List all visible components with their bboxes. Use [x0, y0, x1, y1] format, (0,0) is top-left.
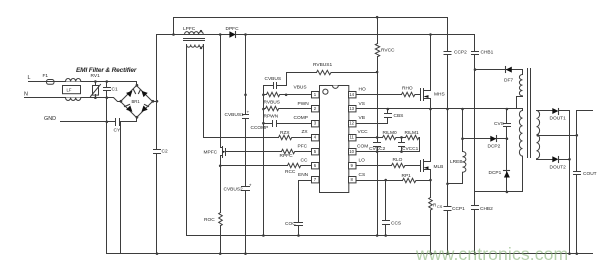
resistor RP1: [403, 178, 431, 182]
svg-text:RVCC: RVCC: [381, 48, 395, 54]
svg-text:+: +: [249, 184, 252, 189]
svg-text:BR1: BR1: [132, 99, 141, 104]
svg-text:CVBUS2: CVBUS2: [224, 187, 244, 193]
resistor RPWN: [264, 106, 312, 110]
inductor LF bottom winding: [66, 98, 82, 101]
wire LO line: [357, 165, 392, 167]
svg-text:CY: CY: [114, 128, 121, 134]
resistor ROC: [219, 166, 223, 254]
resistor RCS: [429, 181, 433, 254]
wire x446.5 down to CCP1: [447, 109, 449, 254]
wire CY branch down to bottom rail: [120, 122, 122, 254]
IC pin boxes left: [312, 92, 320, 183]
svg-text:13: 13: [349, 106, 354, 111]
svg-text:RPFC: RPFC: [280, 153, 294, 159]
bridge diode top-right: [141, 91, 147, 97]
svg-text:VS: VS: [359, 101, 365, 107]
wire VCC line with RILM0 RILM1: [357, 137, 383, 139]
junction dot DCP1 bottom: [506, 191, 509, 194]
svg-text:VCC: VCC: [358, 129, 369, 135]
transformer TX primary top winding: [517, 75, 523, 109]
wire LPFC aux right down to ZX: [204, 45, 279, 138]
svg-text:VBUS: VBUS: [294, 84, 307, 90]
wire main rail y34: [157, 34, 475, 36]
capacitor C1: [104, 82, 111, 98]
svg-text:RPWN: RPWN: [264, 114, 279, 120]
resistor RPFC: [282, 149, 312, 153]
svg-text:DCP2: DCP2: [488, 143, 501, 149]
capacitor COUT: [574, 172, 581, 254]
wire top rail y16.7: [174, 17, 448, 19]
capacitor CCOMP with COMP line: [264, 121, 312, 127]
svg-text:11: 11: [349, 135, 354, 140]
inductor LPFC top winding: [185, 32, 204, 35]
junction dot rail x173: [172, 33, 175, 36]
svg-text:LO: LO: [359, 158, 366, 164]
wire x462 down: [462, 109, 464, 152]
resistor RCC: [288, 163, 312, 167]
wire ENN pin7: [299, 181, 312, 223]
resistor RVBUS1: [317, 70, 331, 74]
wire bottom DC- rail: [107, 253, 593, 255]
junction dots C1: [106, 80, 109, 99]
inductor LPFC aux winding: [187, 45, 204, 48]
junction dot COUT rail: [576, 252, 579, 255]
resistor RILM1: [402, 135, 420, 151]
junction dot VS x446.5: [446, 108, 449, 111]
svg-text:CVS: CVS: [494, 121, 504, 127]
wire pin1 line: [287, 94, 312, 96]
junction dots CVS chain: [506, 108, 509, 140]
resistor RLO: [392, 163, 421, 167]
diode DOUT2: [552, 156, 558, 162]
wire secondary bottom to DOUT2: [537, 159, 553, 161]
svg-text:COUT: COUT: [583, 171, 597, 177]
capacitor CY: [116, 118, 137, 126]
diode DCP2: [463, 138, 507, 140]
wire center tap: [538, 135, 577, 137]
junction dot DCP2 branch: [461, 137, 464, 140]
bridge diode bottom-left: [126, 106, 132, 112]
junction dot VS x462: [461, 108, 464, 111]
diode DOUT1: [552, 108, 558, 114]
svg-text:CVCC1: CVCC1: [402, 146, 419, 152]
wire RVCC vertical: [377, 18, 379, 44]
junction dot MPFC source: [219, 165, 222, 168]
svg-text:10: 10: [349, 149, 354, 154]
junction dot ROC bottom rail: [219, 252, 222, 255]
wire DOUT cathode bus: [569, 111, 571, 254]
resistor RHO: [402, 92, 421, 96]
svg-text:N: N: [24, 92, 28, 98]
diode DCP1: [506, 139, 508, 192]
junction dots B1: [244, 94, 247, 256]
capacitor CHB1: [472, 52, 479, 55]
resistor RZX: [279, 135, 312, 139]
capacitor CVCC2: [374, 138, 381, 152]
wire bridge right to DC bus: [153, 101, 157, 103]
junction dots CCP1 line: [446, 183, 449, 256]
svg-text:14: 14: [349, 92, 354, 97]
svg-text:CCP1: CCP1: [452, 206, 465, 212]
svg-text:GND: GND: [44, 116, 56, 122]
svg-text:COM: COM: [357, 143, 368, 149]
svg-text:L: L: [28, 75, 31, 81]
junction dot MLB source: [429, 179, 432, 182]
svg-text:DOUT2: DOUT2: [550, 165, 567, 171]
transformer TX primary bottom winding: [475, 111, 523, 192]
svg-text:RLO: RLO: [393, 157, 403, 163]
junction dot RVBUS1 right: [376, 71, 379, 74]
junction dot CHB2 rail: [474, 252, 477, 255]
wire L choke to RV1: [82, 81, 137, 83]
svg-text:CHB1: CHB1: [481, 50, 494, 56]
svg-text:RCC: RCC: [285, 169, 296, 175]
junction dots VCC line: [376, 136, 403, 139]
inductor LREB: [448, 152, 466, 184]
svg-text:EMI Filter & Rectifier: EMI Filter & Rectifier: [76, 67, 137, 74]
node N input: [25, 97, 66, 99]
svg-text:+: +: [247, 111, 250, 116]
svg-text:RP1: RP1: [402, 173, 412, 179]
svg-text:COC: COC: [285, 221, 296, 227]
svg-text:DPFC: DPFC: [226, 26, 240, 32]
svg-text:HO: HO: [359, 87, 366, 93]
capacitor CVCC1: [399, 138, 405, 152]
inductor LF box: [63, 86, 81, 94]
wire HO line: [357, 94, 402, 96]
svg-text:MPFC: MPFC: [204, 149, 218, 155]
diode DPFC: [225, 34, 246, 36]
svg-text:DF7: DF7: [504, 77, 513, 83]
transformer TX core: [528, 69, 531, 158]
bridge diode bottom-right: [141, 106, 147, 112]
capacitor CCP2: [444, 52, 451, 55]
wire signal ground rail: [187, 235, 431, 237]
svg-text:ENN: ENN: [298, 172, 309, 178]
wire output plus line: [577, 111, 593, 172]
svg-text:RHO: RHO: [402, 86, 413, 92]
watermark: [415, 244, 568, 264]
wire COM to signal rail: [377, 152, 379, 236]
junction dot RCS bottom: [430, 252, 433, 255]
wire bus B2 x262.9: [263, 86, 265, 236]
pin numbers: [314, 92, 355, 182]
resistor RVBUS: [264, 92, 287, 96]
wire RVBUS1 line: [287, 72, 378, 74]
capacitor CVBUS: [264, 83, 287, 89]
svg-text:LPFC: LPFC: [183, 26, 196, 32]
junction dots RV1: [94, 80, 97, 99]
svg-text:RV1: RV1: [91, 73, 101, 79]
capacitor CCP1: [444, 207, 451, 211]
fuse F1: [47, 80, 55, 85]
LPFC phase dots: [200, 30, 202, 49]
wire L to choke: [54, 81, 66, 83]
svg-text:RILM1: RILM1: [405, 130, 419, 136]
svg-text:CS: CS: [437, 205, 443, 209]
junction dot RVCC top: [376, 16, 379, 19]
wire top rail left drop: [173, 18, 175, 35]
bridge rectifier BR1: [121, 86, 153, 118]
junction dot DC bus bottom rail: [156, 252, 159, 255]
svg-text:CHB2: CHB2: [480, 206, 493, 212]
capacitor COC: [295, 223, 303, 236]
svg-text:ZX: ZX: [302, 129, 309, 135]
diode DF7: [475, 70, 523, 75]
transistor MLB: [421, 109, 431, 181]
svg-text:DOUT1: DOUT1: [550, 115, 567, 121]
junction dot GND: [106, 121, 109, 124]
wire CVS chain: [506, 109, 508, 139]
svg-text:MLB: MLB: [434, 164, 444, 170]
svg-text:RZX: RZX: [280, 130, 290, 136]
wire bus B1 CVBUS line x245: [245, 35, 247, 254]
junction dot CBS top: [387, 108, 390, 111]
junction dot COC rail: [297, 234, 300, 237]
junction dots B2: [262, 94, 265, 237]
svg-text:LF: LF: [67, 87, 72, 92]
svg-text:12: 12: [349, 120, 354, 125]
junction dots bridge corners: [120, 84, 155, 119]
varistor RV1: [91, 82, 101, 98]
junction dots cathode bus: [568, 158, 571, 255]
capacitor CVS: [504, 124, 511, 127]
wire VS line: [357, 109, 523, 111]
IC notch: [333, 86, 339, 89]
junction dot rail x245: [244, 33, 247, 36]
svg-text:CCOMP: CCOMP: [251, 125, 269, 131]
svg-text:DCP1: DCP1: [489, 170, 502, 176]
svg-text:F1: F1: [43, 73, 49, 79]
wire N to bridge: [82, 98, 121, 102]
bridge diode top-left: [126, 91, 132, 97]
wire CCP2 vertical from top rail: [447, 18, 449, 109]
junction dot DF7 anode: [474, 68, 477, 71]
junction dot MPFC drain on rail: [219, 33, 222, 36]
svg-text:CS: CS: [359, 172, 366, 178]
wire CS line: [357, 180, 403, 182]
inductor LF top winding: [66, 79, 82, 82]
wire CVBUS right up to RVBUS1 line: [286, 73, 288, 86]
capacitor CVBUS2: [242, 187, 250, 191]
capacitor CVBUS1: [243, 115, 249, 119]
svg-text:CVCC2: CVCC2: [369, 146, 386, 152]
resistor RVCC: [375, 44, 379, 138]
svg-text:VB: VB: [359, 115, 365, 121]
svg-text:C2: C2: [162, 149, 168, 155]
junction dot CCS top: [384, 179, 387, 182]
svg-text:CC: CC: [301, 158, 308, 164]
svg-text:LREB: LREB: [450, 159, 463, 165]
capacitor CCS: [383, 181, 390, 236]
capacitor CBS: [385, 109, 392, 124]
svg-text:PFC: PFC: [298, 143, 308, 149]
LPFC core lines: [184, 39, 205, 41]
transistor MHS: [421, 35, 431, 109]
svg-text:C1: C1: [112, 87, 118, 93]
IC U1 body: [320, 86, 349, 193]
transistor MPFC: [221, 35, 282, 166]
junction dot COM rail: [376, 234, 379, 237]
wire secondary top to DOUT1: [537, 110, 553, 112]
wire COM line: [357, 151, 420, 153]
svg-text:RILM0: RILM0: [383, 130, 397, 136]
wire CHB1 vertical: [474, 35, 476, 192]
svg-text:CCP2: CCP2: [454, 50, 467, 56]
wire source to RCC line: [221, 165, 288, 167]
wire DC+ bus vertical: [156, 35, 158, 254]
capacitor CHB2: [472, 192, 479, 254]
wire VB line: [357, 123, 388, 125]
junction dot CCS rail: [384, 234, 387, 237]
resistor RILM0: [383, 135, 402, 139]
svg-text:PWN: PWN: [298, 101, 310, 107]
svg-text:CVBUS1: CVBUS1: [225, 112, 245, 118]
svg-text:www.cntronics.com: www.cntronics.com: [415, 244, 568, 264]
svg-text:CCS: CCS: [391, 221, 401, 227]
wire L drop to bridge top: [136, 82, 138, 86]
junction dot DC bus: [156, 100, 159, 103]
wire C1 down to GND line and bottom rail: [106, 98, 108, 254]
svg-text:RVBUS1: RVBUS1: [313, 62, 332, 68]
capacitor C2: [154, 150, 161, 154]
svg-text:COMP: COMP: [294, 115, 308, 121]
node L input: [29, 81, 47, 83]
svg-text:CBS: CBS: [394, 113, 404, 119]
svg-text:MHS: MHS: [434, 91, 445, 97]
junction dots center tap: [537, 134, 579, 137]
svg-text:RVBUS: RVBUS: [264, 99, 280, 105]
transformer TX secondary winding: [537, 111, 540, 159]
junction dots MHS: [429, 33, 432, 110]
IC pin boxes right: [349, 92, 357, 183]
node GND line: [61, 121, 116, 123]
junction dot x285.6 pin1 line: [285, 94, 288, 97]
junction dots COM line: [376, 150, 403, 153]
IC pin1 circle: [323, 89, 328, 94]
svg-text:ROC: ROC: [204, 217, 215, 223]
svg-text:CVBUS: CVBUS: [265, 76, 282, 82]
wire LPFC aux left down to signal rail: [186, 45, 188, 236]
